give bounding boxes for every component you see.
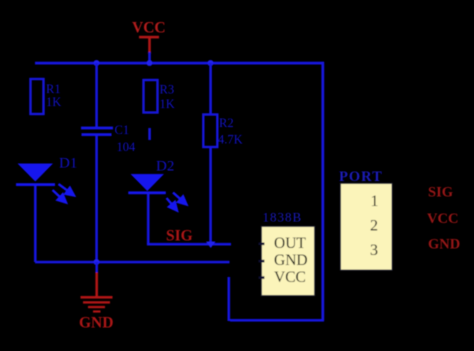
IC U1 1838B receiver body bbox=[262, 227, 315, 296]
wire stub below R3 bbox=[148, 128, 151, 140]
svg-text:SIG: SIG bbox=[428, 185, 453, 201]
wire D1 cathode to ground rail bbox=[34, 186, 37, 262]
node junction SIG/R2 with arrow bbox=[206, 242, 216, 249]
svg-text:GND: GND bbox=[428, 237, 460, 253]
svg-text:VCC: VCC bbox=[274, 269, 306, 286]
node junction cap branch bbox=[94, 60, 100, 66]
svg-text:C1: C1 bbox=[115, 123, 130, 137]
svg-text:GND: GND bbox=[274, 252, 308, 269]
svg-text:1: 1 bbox=[371, 193, 379, 210]
svg-text:3: 3 bbox=[370, 242, 378, 259]
svg-text:2: 2 bbox=[370, 218, 378, 235]
capacitor C1 bbox=[81, 127, 113, 136]
svg-text:OUT: OUT bbox=[274, 235, 306, 252]
svg-text:R1: R1 bbox=[46, 82, 61, 96]
wire D2 cathode to SIG wire bbox=[147, 194, 150, 244]
wire top rail bbox=[35, 62, 324, 65]
wire right vertical (VCC run) bbox=[321, 62, 324, 321]
node junction VCC/R3 bbox=[147, 60, 153, 66]
svg-text:R2: R2 bbox=[219, 116, 234, 130]
node junction ground bbox=[94, 259, 100, 265]
wire left riser to VCC pin bbox=[228, 277, 231, 321]
wire VCC stem to rail bbox=[148, 52, 151, 63]
wire capacitor to ground rail bbox=[95, 136, 98, 262]
pin OUT stub bbox=[259, 243, 265, 246]
wire SIG horizontal bbox=[147, 243, 231, 246]
connector J1 PORT body bbox=[341, 184, 393, 271]
pin GND stub bbox=[259, 260, 265, 263]
power symbol VCC bbox=[139, 36, 159, 54]
node junction R2 bbox=[208, 60, 214, 66]
pin VCC stub bbox=[259, 276, 265, 279]
svg-text:PORT: PORT bbox=[339, 169, 383, 185]
wire bottom horizontal bbox=[230, 319, 324, 322]
svg-text:104: 104 bbox=[117, 140, 137, 154]
svg-text:VCC: VCC bbox=[132, 20, 166, 37]
LED D2 bbox=[128, 174, 186, 211]
svg-text:VCC: VCC bbox=[427, 211, 458, 227]
wire ground rail bbox=[35, 261, 230, 264]
svg-text:1K: 1K bbox=[46, 95, 61, 109]
wire R2 to SIG bbox=[209, 147, 212, 244]
resistor R2 bbox=[203, 115, 217, 148]
svg-text:SIG: SIG bbox=[166, 228, 193, 245]
svg-text:D2: D2 bbox=[156, 159, 174, 175]
wire rail to capacitor bbox=[95, 63, 98, 127]
resistor R1 bbox=[31, 79, 44, 114]
svg-text:D1: D1 bbox=[59, 156, 77, 172]
ground symbol bbox=[81, 262, 113, 313]
svg-text:GND: GND bbox=[79, 315, 113, 332]
LED D1 bbox=[16, 164, 74, 203]
svg-text:1838B: 1838B bbox=[263, 210, 303, 225]
wire rail to R2 bbox=[209, 63, 212, 114]
svg-text:R3: R3 bbox=[160, 83, 175, 97]
svg-text:4.7K: 4.7K bbox=[218, 133, 243, 147]
resistor R3 bbox=[144, 80, 158, 113]
svg-text:1K: 1K bbox=[160, 97, 175, 111]
